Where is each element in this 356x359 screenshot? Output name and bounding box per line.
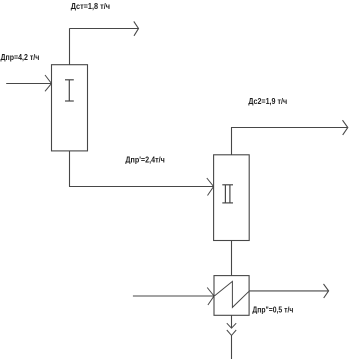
arrowhead distillate: [134, 21, 139, 35]
wire: column II bottoms downcomer: [231, 241, 233, 276]
arrowhead down chevron 1: [227, 323, 236, 328]
wire: column II top outlet riser: [231, 128, 233, 155]
wire: coolant inlet line: [133, 295, 214, 297]
column II (vessel): [214, 155, 250, 241]
wire: feed line into column I: [6, 83, 51, 85]
wire: coolant outlet line: [249, 290, 328, 292]
column I (vessel): [52, 65, 88, 151]
arrowhead coolant into exchanger: [207, 288, 214, 306]
svg-text:Дпр"=0,5 т/ч: Дпр"=0,5 т/ч: [252, 306, 293, 315]
wire: overhead line to right: [231, 127, 347, 129]
svg-text:Дпр'=2,4т/ч: Дпр'=2,4т/ч: [125, 156, 165, 165]
heat exchanger E1 body: [214, 276, 249, 316]
svg-text:Дст=1,8 т/ч: Дст=1,8 т/ч: [71, 2, 110, 11]
arrowhead coolant outlet: [324, 284, 329, 298]
arrowhead overhead: [343, 120, 348, 135]
wire: product line continues off page: [231, 335, 233, 359]
arrowhead into column II: [207, 178, 214, 196]
column I internal symbol I: [65, 80, 74, 101]
heat exchanger zigzag: [215, 281, 250, 307]
wire: column I bottoms downcomer: [69, 151, 71, 187]
wire: bottoms line to column II: [69, 186, 214, 188]
wire: distillate line to right: [70, 28, 139, 30]
wire: column I top outlet riser: [69, 28, 71, 64]
arrowhead feed into column I: [45, 75, 52, 91]
column II internal symbol II: [222, 185, 233, 203]
arrowhead down chevron 2: [227, 330, 236, 335]
svg-text:Дпр=4,2 т/ч: Дпр=4,2 т/ч: [1, 53, 40, 62]
svg-text:Дс2=1,9 т/ч: Дс2=1,9 т/ч: [248, 97, 287, 106]
wire: exchanger bottom outlet: [231, 315, 233, 328]
